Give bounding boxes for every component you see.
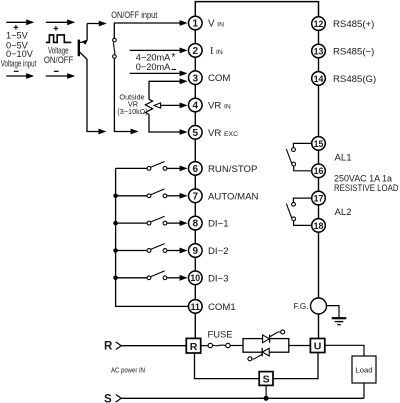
junction dot bus row8 [113,221,118,226]
transistor Q1 emitter wire to on/off line [79,24,100,43]
chevron S [116,395,121,403]
switch SW9 [116,244,167,253]
label 0-20mA with polarity [136,62,171,72]
terminal 15 [312,137,326,151]
svg-text:U: U [314,341,322,353]
wire VR top to terminal 3 [149,78,188,99]
thyristor SCR1 cathode bar [269,335,271,343]
terminal 12 [312,17,326,31]
svg-text:Load: Load [356,366,373,375]
relay AL1 wire from 15 [293,143,311,147]
svg-text:DI−2: DI−2 [208,246,229,257]
terminal 11 [189,300,203,314]
terminal 18 [312,219,326,233]
svg-text:RS485(+): RS485(+) [333,19,374,30]
label voltage ranges [6,31,34,59]
label 4-20mA with polarity [136,52,176,64]
terminal 9 [189,244,203,258]
wire voltage input + arrow [6,19,34,25]
relay AL2 blade [286,204,291,218]
terminal 5 [189,126,203,140]
wire right terminal column [318,16,320,339]
svg-text:COM1: COM1 [208,302,236,313]
terminal 6 [189,162,203,176]
junction dot S line [264,396,269,401]
wire arrow into terminal 7 [167,193,188,199]
wire F.G. to earth [327,306,340,318]
wire R input line [121,345,186,347]
svg-text:1: 1 [193,19,199,30]
switch SW10 [116,271,167,280]
svg-text:13: 13 [314,46,324,56]
terminal 2 [189,44,203,58]
svg-text:10: 10 [190,273,200,283]
svg-text:5: 5 [193,128,199,139]
terminal 14 [312,72,326,86]
svg-text:7: 7 [193,191,199,202]
svg-text:0−10V: 0−10V [6,49,34,59]
junction dot bus row10 [113,276,118,281]
wire on/off switch down to VR exc arrow [114,58,138,134]
terminal 17 [312,191,326,205]
terminal U square [310,339,324,353]
svg-text:6: 6 [193,164,199,175]
svg-text:11: 11 [191,302,200,312]
wire load to S line [363,383,365,398]
terminal 10 [189,271,203,285]
wire arrow into terminal 8 [167,220,188,226]
thyristor SCR2 gate [248,354,262,361]
svg-text:ON/OFF: ON/OFF [44,54,74,65]
terminal 3 [189,71,203,85]
svg-text:RS485(G): RS485(G) [333,74,376,85]
svg-text:RUN/STOP: RUN/STOP [208,164,257,175]
switch SW8 [116,216,167,225]
svg-text:AUTO/MAN: AUTO/MAN [208,191,259,202]
switch SW-ON/OFF contact bottom [113,55,117,59]
svg-text:16: 16 [314,166,324,176]
switch SW-ON/OFF contact top [113,38,117,42]
minus mark 0-20mA [172,69,176,71]
label Voltage ON/OFF [44,46,74,65]
potentiometer wiper open arrow [154,103,161,108]
svg-text:14: 14 [314,74,324,84]
svg-text:FUSE: FUSE [208,330,233,340]
terminal 16 [312,164,326,178]
svg-text:Voltage input: Voltage input [1,59,37,69]
svg-text:RESISTIVE LOAD: RESISTIVE LOAD [334,183,399,193]
svg-text:VR EXC: VR EXC [208,128,238,139]
wire on/off voltage + arrow [46,19,75,25]
svg-text:AL1: AL1 [335,152,352,163]
wire SCR box to U [289,345,311,347]
svg-text:ON/OFF input: ON/OFF input [111,10,157,20]
label Outside VR 3-10k [117,92,147,116]
potentiometer VR zigzag [145,99,152,114]
svg-text:DI−3: DI−3 [208,273,229,284]
chevron R [116,342,121,350]
svg-text:S: S [104,393,112,403]
relay AL2 contact top [292,202,296,206]
wire left terminal column [194,16,196,339]
svg-text:COM: COM [208,73,230,84]
relay AL1 wire to 16 [294,166,312,171]
transistor Q1 emitter arrow [82,40,88,45]
svg-text:R: R [190,341,198,353]
svg-text:RS485(−): RS485(−) [333,47,374,58]
svg-text:R: R [104,341,113,353]
wire on/off voltage - arrow [46,73,75,79]
terminal F.G. circle [311,298,327,314]
fuse F1 [201,343,243,347]
wire on/off switch top corner to terminal 1 [114,20,187,38]
wire U to load [325,345,364,356]
switch SW7 [116,189,167,198]
svg-text:1−5V: 1−5V [6,31,29,41]
relay AL2 wire from 17 [293,198,311,202]
ground symbol [332,318,347,324]
svg-text:3: 3 [193,73,199,84]
wire arrow into terminal 6 [167,166,188,172]
minus mark voltage input [14,70,19,72]
svg-text:12: 12 [314,19,324,29]
svg-text:17: 17 [314,194,324,204]
svg-text:F.G.: F.G. [293,302,308,311]
wire S square to S line [265,385,267,398]
svg-text:DI−1: DI−1 [208,219,229,230]
svg-text:VR IN: VR IN [208,101,231,112]
thyristor SCR1 triangle [263,335,270,343]
svg-text:2: 2 [193,46,199,57]
svg-text:9: 9 [193,246,199,257]
thyristor SCR1 gate [270,330,285,337]
relay AL1 blade [286,149,291,163]
transistor Q1 collector wire down to bottom arrow [79,52,106,135]
svg-text:AL2: AL2 [335,207,352,218]
relay AL2 contact bottom [292,217,296,221]
terminal 13 [312,44,326,58]
svg-text:AC power IN: AC power IN [111,365,145,374]
svg-text:18: 18 [314,221,324,231]
svg-text:4: 4 [193,101,199,112]
wire arrow into terminal 3 upper [130,71,188,77]
svg-text:V IN: V IN [208,19,224,30]
terminal S square [259,372,273,386]
relay AL1 contact top [292,148,296,152]
svg-text:*: * [171,52,176,64]
wire top rail [195,2,318,16]
wire wiper to terminal 4 [161,103,188,109]
wire S line [121,397,364,399]
junction dot bus row7 [113,194,118,199]
terminal 8 [189,216,203,230]
square wave symbol [46,35,72,43]
load box [352,356,376,383]
relay AL2 wire to 18 [294,221,312,226]
thyristor SCR2 triangle [262,348,269,356]
terminal R square [186,338,200,353]
plus mark voltage input [14,25,19,30]
SCR module box [243,339,289,353]
svg-text:S: S [263,374,270,386]
wire R square bottom to S rail [195,353,260,379]
svg-text:I IN: I IN [210,46,223,57]
wire voltage input - arrow [6,73,34,79]
switch SW-ON/OFF blade [113,42,115,54]
terminal 7 [189,189,203,203]
switch SW6 [116,162,167,171]
terminal 1 [189,16,203,30]
svg-text:(3−10kΩ): (3−10kΩ) [117,107,147,116]
wire arrow into terminal 2 [130,48,188,54]
relay AL1 contact bottom [292,162,296,166]
wire U square bottom to S rail [273,353,318,379]
junction dot bus row9 [113,248,118,253]
svg-text:0−20mA: 0−20mA [136,62,171,72]
wire VR bottom to terminal 5 [149,114,188,134]
plus mark on/off [54,26,59,31]
terminal 4 [189,98,203,112]
svg-text:8: 8 [193,219,199,230]
wire arrow into terminal 10 [167,275,188,281]
arrowhead emitter to on/off line [99,21,107,27]
svg-text:15: 15 [314,139,324,149]
thyristor SCR2 anode bar [261,348,263,356]
wire switch bus vertical to COM1 [116,168,188,306]
minus mark on/off [54,70,59,72]
transistor Q1 base bar [78,40,80,57]
wire arrow into terminal 9 [167,248,188,254]
